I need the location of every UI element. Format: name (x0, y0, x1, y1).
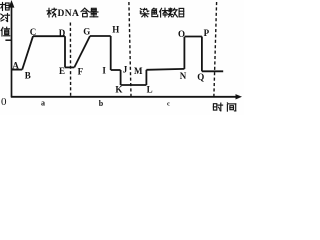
wire segment P-Q drop (201, 37, 203, 72)
svg-text:I: I (102, 65, 106, 75)
wire segment G-H plateau (90, 35, 111, 37)
char 核 (title 1) (47, 8, 57, 17)
wire segment D-E drop (64, 36, 66, 67)
dashed divider 1 (a/b boundary) (69, 23, 71, 97)
wire segment M-N level (146, 68, 184, 71)
char 含 (title 1) (81, 8, 89, 17)
svg-text:A: A (12, 61, 19, 71)
wire segment B-C rise (S phase) (22, 36, 33, 69)
char 对 (y-axis label) (1, 14, 10, 22)
svg-text:Q: Q (197, 72, 204, 82)
y-axis (11, 6, 13, 97)
svg-text:M: M (134, 66, 143, 76)
svg-text:P: P (204, 28, 210, 38)
wire segment K-L low level (121, 84, 147, 86)
svg-text:D: D (59, 28, 66, 38)
y-axis arrowhead (9, 0, 15, 8)
wire segment O-P plateau (184, 36, 202, 38)
wire segment H-I drop (110, 36, 112, 70)
char 量 (title 1) (90, 8, 98, 16)
wire segment C-D plateau (4C) (33, 35, 65, 37)
y-axis tick 4C level (5, 39, 11, 41)
svg-text:J: J (123, 64, 128, 74)
dashed divider 3 (214, 2, 217, 96)
dashed divider 2 (b/c boundary) (129, 2, 131, 96)
char 目 (title 2) (179, 8, 184, 16)
svg-text:DNA: DNA (58, 9, 80, 19)
char 数 (title 2) (168, 8, 177, 17)
wire segment L-M rise (fertilization) (145, 70, 147, 85)
svg-text:a: a (41, 98, 45, 107)
wire segment E-F level (65, 66, 74, 68)
char 染 (title 2) (140, 8, 149, 17)
svg-text:H: H (112, 24, 119, 34)
svg-text:N: N (180, 71, 187, 81)
wire segment I-J level (111, 69, 121, 71)
char 相 (y-axis label) (1, 3, 10, 11)
x-axis arrowhead (236, 94, 243, 99)
CJK glyphs drawn as strokes (1, 3, 236, 112)
wire segment F-G rise (74, 36, 90, 67)
char 值 (y-axis label) (1, 27, 10, 36)
svg-text:G: G (83, 27, 90, 37)
char 时 (x-axis label) (213, 103, 222, 111)
svg-text:c: c (167, 101, 170, 108)
char 色 (title 2) (152, 8, 158, 16)
svg-text:L: L (147, 84, 153, 94)
svg-text:B: B (25, 71, 31, 81)
char 体 (title 2) (160, 8, 168, 17)
svg-text:0: 0 (1, 96, 7, 108)
wire segment A-B (G1 level) (12, 69, 22, 71)
wire segment J-K drop (120, 70, 122, 85)
svg-text:E: E (59, 66, 65, 76)
char 间 (x-axis label) (227, 103, 235, 111)
svg-text:C: C (30, 27, 37, 37)
svg-text:F: F (78, 67, 84, 77)
svg-text:K: K (115, 84, 122, 94)
wire segment N-O rise (183, 37, 185, 69)
svg-text:b: b (99, 99, 104, 108)
svg-text:O: O (178, 29, 185, 39)
wire segment Q-end (202, 70, 223, 72)
x-axis (11, 96, 237, 98)
